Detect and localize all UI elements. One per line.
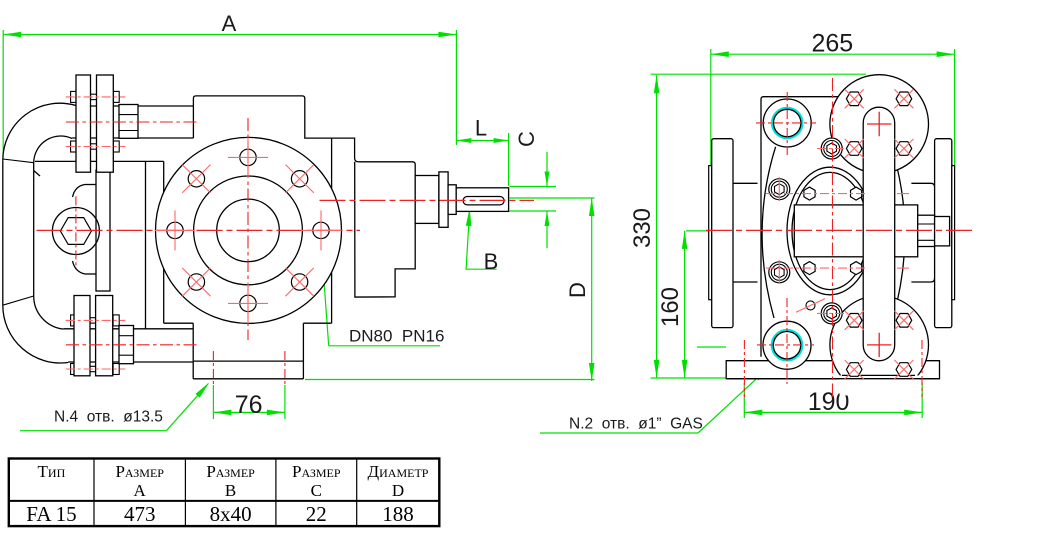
- plug boss circle: [52, 208, 99, 255]
- leader B arrow: [466, 208, 472, 226]
- svg-text:Диаметр: Диаметр: [368, 462, 429, 481]
- port boss bottom: [763, 321, 811, 369]
- body bottom edge left: [164, 322, 194, 324]
- small hex bolt row2 right: [851, 262, 862, 275]
- right flange hub bottom line: [911, 278, 934, 282]
- shaft flange disc: [439, 172, 448, 227]
- centerline base hole left: [743, 340, 745, 397]
- bottom flange plate 2: [96, 296, 113, 376]
- svg-text:Размер: Размер: [115, 462, 164, 481]
- dimension 160 arrow bottom: [682, 360, 688, 378]
- shaft keyway: [463, 197, 504, 205]
- dimension 190 extension left: [743, 383, 745, 418]
- lifting handle: [863, 107, 895, 361]
- foot right edge: [302, 323, 304, 379]
- top flange bolt 2 nut left: [71, 141, 76, 152]
- dimension L arrow left: [456, 138, 471, 143]
- bracket boss top line: [85, 184, 96, 186]
- svg-text:N.4 отв. ø13.5: N.4 отв. ø13.5: [54, 409, 163, 426]
- bottom flange bolt 1 nut left: [71, 315, 77, 326]
- extension line bottom port level: [697, 346, 726, 348]
- dimension L extension line right: [508, 133, 510, 186]
- svg-text:A: A: [222, 11, 237, 36]
- dimension 265 extension right: [954, 49, 956, 170]
- body left wall line 1: [145, 162, 147, 329]
- shaft body: [456, 188, 508, 212]
- dimension 76 arrow left: [213, 410, 231, 416]
- svg-text:D: D: [565, 282, 590, 298]
- centerline base hole right: [921, 340, 923, 397]
- bypass pipe weld seam top: [3, 159, 34, 163]
- centerline port top horizontal: [756, 122, 816, 124]
- centerline flange horizontal: [37, 229, 361, 231]
- dimension 190 extension right: [921, 383, 923, 418]
- bottom flange bolt 1 rod: [71, 318, 119, 323]
- gear cover circle bottom: [830, 296, 929, 395]
- bracket boss fillet bottom: [73, 261, 86, 274]
- socket bolt left bottom: [769, 262, 790, 283]
- leader DN80 underline: [329, 345, 440, 347]
- bypass pipe elbow top outer arc: [3, 103, 76, 160]
- port bottom cyan ring: [772, 330, 802, 360]
- centerline socket bolt bottom: [817, 312, 847, 314]
- oval gear chamber inner: [792, 172, 868, 289]
- dimension 190 line: [744, 411, 922, 413]
- bottom union nut facet 1: [119, 335, 134, 337]
- bracket chamfer: [25, 163, 40, 176]
- flange raised face circle: [194, 176, 303, 285]
- casing outline right bow: [891, 147, 905, 318]
- dimension C extension line bottom: [510, 210, 557, 212]
- small hex bolt row1 left: [804, 187, 815, 200]
- bypass pipe left edge: [2, 160, 4, 305]
- dimension D arrow bottom: [589, 363, 595, 381]
- top flange bolt 2 nut right: [113, 141, 119, 152]
- body bottom edge right: [303, 322, 331, 324]
- svg-text:265: 265: [811, 30, 853, 58]
- leader B polyline: [466, 208, 497, 269]
- port boss top: [763, 99, 811, 147]
- bypass pipe inner edge: [33, 163, 35, 296]
- dimension 330 extension bottom: [651, 377, 727, 379]
- bottom flange bolt 1 nut right: [113, 315, 119, 326]
- top flange bolt 1 nut right: [113, 91, 119, 102]
- centerline bolt row 2b: [897, 267, 909, 269]
- dimension A extension line left: [2, 30, 4, 160]
- bypass pipe elbow bottom inner arc: [34, 296, 64, 329]
- centerline top bolt 2: [66, 146, 126, 148]
- plug hex head: [60, 218, 91, 245]
- body face plate: [761, 97, 838, 357]
- shaft nut facet 1: [918, 223, 935, 225]
- base bottom edge: [193, 378, 303, 380]
- dimension 76 line: [213, 411, 285, 413]
- centerline top pipe: [66, 121, 198, 123]
- top flange plate 2: [97, 75, 114, 172]
- shaft step: [448, 185, 456, 215]
- dimension C extension line top: [510, 186, 557, 188]
- dimension D line: [591, 198, 593, 381]
- pump bracket top edge: [35, 160, 164, 162]
- base bottom edge redraw: [726, 378, 939, 380]
- socket bolt top center: [821, 138, 842, 159]
- svg-text:Размер: Размер: [206, 462, 255, 481]
- dimension C line below: [546, 211, 548, 248]
- cross gear center bottom: [867, 333, 891, 357]
- dimension 330 extension top: [651, 73, 866, 75]
- port bottom inner circle: [773, 332, 800, 359]
- top flange bolt 2 rod: [71, 144, 119, 149]
- dimension 160 extension top: [686, 230, 722, 232]
- centerline socket bolt top: [817, 148, 847, 150]
- shaft nut: [918, 215, 935, 246]
- dimension L arrow right: [494, 138, 509, 143]
- centerline main horizontal: [706, 229, 975, 231]
- centerline plug vertical: [75, 196, 77, 266]
- left flange lip: [709, 166, 712, 300]
- left flange hub top line: [733, 182, 758, 184]
- svg-text:160: 160: [657, 287, 684, 327]
- centerline bottom bolt 2: [66, 368, 126, 370]
- dimension C arrow top: [545, 172, 550, 187]
- dimension D arrow top: [589, 198, 595, 216]
- leader N.2 arrow: [755, 366, 770, 380]
- dimension 160 arrow top: [682, 231, 688, 249]
- dimension 160 line: [684, 231, 686, 378]
- centerline port bottom vertical: [786, 298, 788, 384]
- base seam line: [193, 360, 303, 362]
- centerline main vertical: [832, 78, 834, 397]
- centerline foot hole left: [212, 351, 214, 386]
- dimension D extension line bottom: [305, 379, 595, 381]
- dimension 330 line: [656, 75, 658, 378]
- leader N.2 underline: [540, 432, 698, 434]
- dimension 265 extension left: [710, 49, 712, 170]
- dimension 76 extension right: [284, 385, 286, 419]
- bottom flange bolt 2 nut left: [71, 364, 77, 375]
- small pin hole: [806, 301, 815, 310]
- dimension A line: [3, 34, 456, 36]
- cross gear center top: [867, 112, 891, 136]
- left flange plate: [712, 139, 733, 328]
- flange disc outer circle: [156, 137, 342, 323]
- bypass pipe elbow bottom outer arc: [3, 305, 68, 363]
- shaft nut facet 2: [918, 239, 935, 241]
- svg-text:Тип: Тип: [38, 462, 66, 481]
- gear cover hex bolts x8: [846, 92, 862, 106]
- casing outline left bow: [762, 147, 776, 318]
- svg-text:188: 188: [382, 502, 414, 526]
- centerline bottom pipe: [66, 344, 200, 346]
- centerline foot hole right: [284, 351, 286, 386]
- svg-text:FA 15: FA 15: [26, 502, 76, 526]
- bottom union nut facet 2: [119, 354, 134, 356]
- socket bolt left top: [769, 179, 790, 200]
- dimension A arrow right: [438, 32, 456, 38]
- centerline bolt row 2: [766, 267, 866, 269]
- gear cover bolt cross marks x8: [845, 89, 864, 108]
- dimension 265 arrow left: [711, 51, 729, 57]
- centerline port top vertical: [786, 92, 788, 157]
- gear cover circle top: [830, 75, 929, 174]
- svg-text:8x40: 8x40: [210, 502, 252, 526]
- svg-text:B: B: [225, 481, 236, 500]
- dimension C line above: [546, 152, 548, 187]
- svg-text:B: B: [484, 249, 499, 274]
- leader N.4 diagonal: [166, 384, 208, 431]
- top pipe bottom edge: [72, 137, 193, 139]
- svg-text:22: 22: [306, 502, 327, 526]
- svg-text:473: 473: [124, 502, 156, 526]
- dimension C arrow bottom: [545, 211, 550, 226]
- base plate right view: [726, 361, 939, 379]
- pin hole diagonal mark: [796, 299, 825, 313]
- svg-text:A: A: [134, 481, 147, 500]
- flange bore circle: [217, 199, 280, 262]
- centerline top bolt 1: [66, 96, 126, 98]
- top pipe top edge: [76, 105, 194, 107]
- small hex bolt row2 left: [804, 262, 815, 275]
- body inner right edge: [331, 138, 333, 323]
- body left wall line 2: [163, 161, 165, 323]
- bypass pipe weld seam bottom: [3, 296, 34, 305]
- svg-text:76: 76: [235, 391, 263, 419]
- left flange hub bottom line: [733, 281, 758, 283]
- dimension 265 arrow right: [937, 51, 955, 57]
- flange bolt hole centerline marks: [247, 137, 249, 177]
- centerline socket left top vertical: [778, 177, 780, 201]
- svg-text:C: C: [311, 481, 322, 500]
- bottom pipe top edge: [63, 328, 193, 330]
- port top inner circle: [774, 109, 801, 136]
- right flange hub top line: [911, 183, 934, 187]
- small hex bolt row1 right: [851, 187, 862, 200]
- svg-text:N.2 отв. ø1” GAS: N.2 отв. ø1” GAS: [569, 416, 703, 433]
- bottom pipe fill: [66, 329, 193, 362]
- top union nut facet 1: [119, 114, 138, 116]
- bottom pipe bottom edge: [68, 361, 193, 363]
- bracket boss bottom line: [85, 273, 96, 275]
- bypass pipe elbow top inner arc: [34, 136, 72, 163]
- dimension 76 arrow right: [267, 410, 285, 416]
- centerline flange vertical: [247, 118, 249, 340]
- gear case block: [794, 205, 917, 257]
- bypass pipe fill: [3, 103, 80, 363]
- dimension A extension line right: [455, 30, 457, 145]
- shaft end cap: [935, 217, 950, 246]
- body top step: [193, 96, 358, 162]
- port top cyan ring: [772, 108, 802, 138]
- bottom flange bolt 2 rod: [71, 366, 119, 371]
- bottom flange plate 1: [74, 296, 90, 376]
- centerline socket left bottom vertical: [778, 260, 780, 284]
- top union nut: [119, 105, 138, 139]
- top flange bolt 1 nut left: [71, 91, 76, 102]
- base pocket clip: [840, 375, 920, 395]
- base pocket line: [842, 374, 915, 376]
- bell housing outline: [355, 162, 416, 297]
- dimension 190 arrow left: [744, 410, 762, 416]
- table frame: [9, 459, 440, 527]
- dimension 190 arrow right: [904, 410, 922, 416]
- dimension D extension line top: [510, 197, 595, 199]
- top flange bolt 1 rod: [71, 94, 119, 99]
- svg-text:Размер: Размер: [292, 462, 341, 481]
- centerline port bottom horizontal: [757, 344, 814, 346]
- dimension 76 extension left: [212, 385, 214, 419]
- oval gear chamber outer: [787, 167, 873, 295]
- dimension 265 line: [711, 53, 955, 55]
- dimension L line: [456, 140, 508, 142]
- top pipe fill: [74, 106, 193, 138]
- right flange lip: [952, 166, 955, 300]
- dimension 330 arrow top: [654, 75, 660, 93]
- bracket boss plate: [96, 170, 110, 291]
- dimension A arrow left: [3, 32, 21, 38]
- socket bolt bottom center: [821, 303, 842, 324]
- svg-text:DN80 PN16: DN80 PN16: [349, 327, 444, 346]
- bottom flange bolt 2 nut right: [113, 364, 119, 375]
- top union nut facet 2: [119, 130, 138, 132]
- foot left edge: [192, 323, 194, 379]
- dimension 330 arrow bottom: [654, 360, 660, 378]
- bracket boss fillet top: [73, 185, 86, 198]
- centerline bottom bolt 1: [66, 319, 126, 321]
- svg-text:D: D: [392, 481, 404, 500]
- bottom union nut: [119, 326, 134, 364]
- svg-text:330: 330: [629, 208, 656, 248]
- centerline bolt row 1b: [897, 193, 909, 195]
- centerline shaft: [320, 199, 535, 201]
- leader DN80 arrow: [321, 264, 327, 282]
- svg-text:L: L: [475, 116, 487, 141]
- right flange plate: [935, 139, 952, 328]
- leader N.2 diagonal: [698, 368, 769, 434]
- flange bolt holes x8: [240, 149, 256, 165]
- svg-text:C: C: [514, 131, 539, 147]
- leader N.4 arrow: [196, 382, 210, 397]
- leader DN80 line: [323, 266, 329, 345]
- top flange plate 1: [76, 75, 91, 172]
- bearing step block: [415, 176, 439, 224]
- centerline bolt row 1: [766, 193, 866, 195]
- leader N.4 underline: [20, 430, 166, 432]
